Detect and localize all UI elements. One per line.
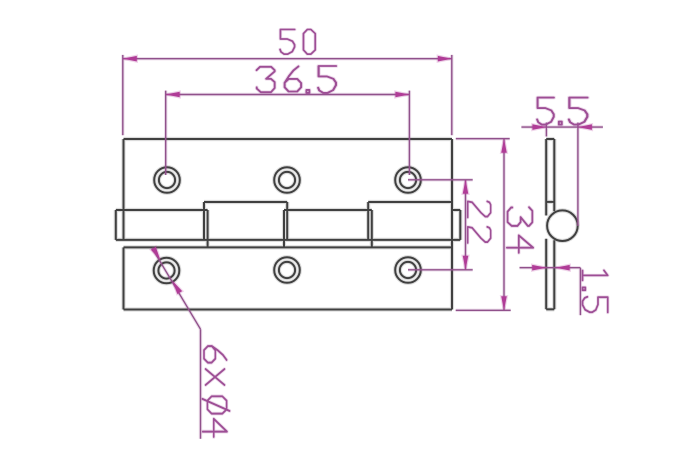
dimension text halo [203,29,608,436]
dark linework core [116,139,578,310]
dimension text core [203,29,608,436]
magenta dimension lines halo [123,55,603,439]
magenta arrows halo [123,56,592,310]
dark linework halo [116,139,578,310]
magenta dimension lines core [123,55,603,439]
magenta arrows core [123,56,592,310]
